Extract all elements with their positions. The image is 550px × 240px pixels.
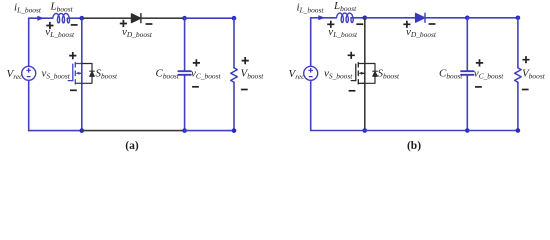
minus of v_S_boost (b) xyxy=(349,90,356,92)
junction node bottom of capacitor (b) xyxy=(465,128,470,133)
junction node top-right corner (b) xyxy=(516,15,521,20)
capacitor C_boost plates (a) xyxy=(178,71,190,75)
wire inductor to switch node (a) xyxy=(67,17,81,19)
plus of V_boost (a) xyxy=(242,57,249,64)
wire cap node to top-right corner (b) xyxy=(467,17,518,19)
minus of v_C_boost (b) xyxy=(475,86,482,88)
junction node bottom of switch (a) xyxy=(80,128,85,133)
minus of v_D_boost (b) xyxy=(429,23,436,25)
minus of V_boost (a) xyxy=(241,89,248,91)
junction node top of capacitor (b) xyxy=(465,15,470,20)
bottom wire left blue segment (a) xyxy=(29,130,82,132)
mosfet S_boost (b) black xyxy=(351,63,365,84)
wire switch node to diode (a) black xyxy=(82,17,132,19)
plus of v_L_boost (b) xyxy=(327,21,334,28)
plus of v_C_boost (a) xyxy=(193,59,200,66)
wire inductor to switch node (b) xyxy=(351,17,365,19)
current arrow i_L_boost (b) xyxy=(318,15,325,20)
mosfet S_boost (a) xyxy=(68,63,82,84)
wire cap node to top-right corner (a) xyxy=(185,17,234,19)
wire diode to cap node (a) black xyxy=(141,17,185,19)
current arrow i_L_boost (a) xyxy=(37,16,44,21)
plus of v_C_boost (b) xyxy=(476,59,483,66)
junction node bottom-right corner (b) xyxy=(516,128,521,133)
diode D_boost (a) xyxy=(132,14,141,23)
minus of v_L_boost (a) xyxy=(71,24,78,26)
minus of v_D_boost (a) xyxy=(146,23,153,25)
diode D_boost (b) xyxy=(416,13,425,22)
wire left vertical (a) xyxy=(28,18,30,130)
junction node bottom of switch (b) xyxy=(363,128,368,133)
bottom wire middle segment (b) xyxy=(365,130,468,132)
switch leg wire (a) xyxy=(81,18,83,130)
minus of v_S_boost (a) xyxy=(70,89,77,91)
bottom wire middle black segment (a) xyxy=(82,130,185,132)
minus inside source (a) xyxy=(27,76,31,78)
plus of v_L_boost (a) xyxy=(46,22,53,29)
load resistor zigzag (b) xyxy=(515,68,522,82)
inductor L_boost (b) xyxy=(336,13,353,22)
wire switch node to diode (b) xyxy=(365,17,416,19)
bottom wire right blue segment (a) xyxy=(185,130,234,132)
minus of v_C_boost (a) xyxy=(192,86,199,88)
inductor L_boost (a) xyxy=(53,14,70,23)
body diode of S_boost (a) black xyxy=(82,64,94,84)
load resistor zigzag (a) xyxy=(231,68,238,82)
wire top-left segment (b) xyxy=(311,17,337,19)
junction node bottom-right corner (a) xyxy=(232,128,237,133)
bottom wire right segment (b) xyxy=(467,130,518,132)
plus inside source (b) xyxy=(308,68,313,73)
svg-text:(b): (b) xyxy=(407,140,421,152)
wire top-left segment (a) xyxy=(29,17,53,19)
capacitor C_boost plates (b) xyxy=(461,71,473,75)
plus inside source (a) xyxy=(26,68,31,73)
svg-text:(a): (a) xyxy=(125,140,139,152)
wire left vertical (b) xyxy=(310,18,312,131)
plus of v_S_boost (a) xyxy=(69,52,76,59)
junction node top of switch (b) xyxy=(363,15,368,20)
plus of v_D_boost (a) xyxy=(120,20,127,27)
voltage source V_rec (a) xyxy=(22,66,36,80)
junction node top of capacitor (a) xyxy=(182,16,187,21)
switch leg wire (b) black xyxy=(364,18,366,131)
voltage source V_rec (b) xyxy=(304,66,318,80)
junction node top of switch (a) xyxy=(80,16,85,21)
minus of v_L_boost (b) xyxy=(356,23,363,25)
load resistor V_boost leg wires (a) xyxy=(233,18,235,130)
capacitor C_boost leg wires (b) xyxy=(466,18,468,131)
plus of v_D_boost (b) xyxy=(403,21,410,28)
load resistor V_boost leg wires (b) xyxy=(517,18,519,131)
minus inside source (b) xyxy=(309,76,313,78)
body diode of S_boost (b) black xyxy=(365,64,377,84)
junction node top-right corner (a) xyxy=(232,16,237,21)
minus of V_boost (b) xyxy=(522,89,529,91)
plus of v_S_boost (b) xyxy=(348,52,355,59)
wire diode to cap node (b) xyxy=(425,17,467,19)
plus of V_boost (b) xyxy=(522,56,529,63)
junction node bottom of capacitor (a) xyxy=(182,128,187,133)
capacitor C_boost leg wires (a) xyxy=(184,18,186,130)
bottom wire left segment (b) xyxy=(311,130,365,132)
